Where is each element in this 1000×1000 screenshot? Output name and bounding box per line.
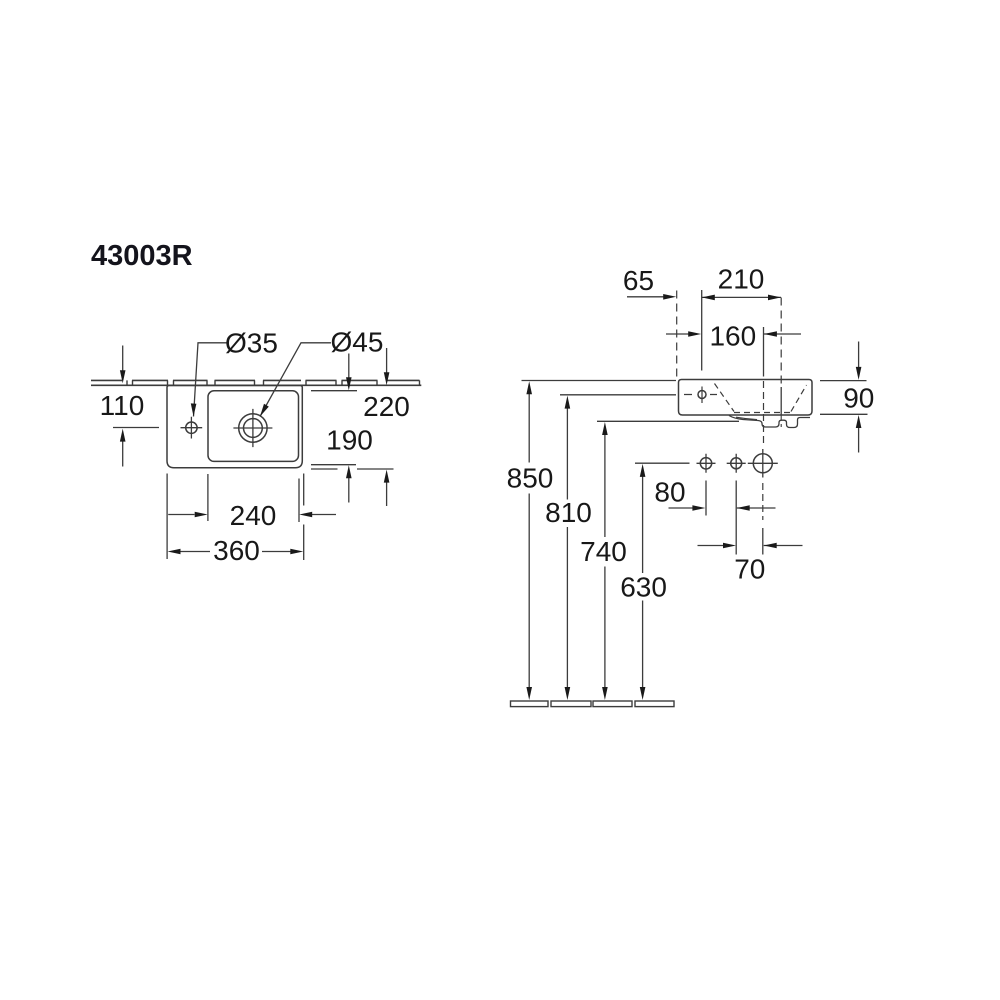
dim 70 right arrow (764, 545, 803, 547)
svg-text:360: 360 (213, 535, 260, 566)
dim 740 vertical line (604, 434, 606, 688)
bowl dashed left slant (front view) (715, 384, 735, 412)
drain inner circle (plan view) (244, 419, 263, 438)
dim 810 top reference line (560, 394, 676, 396)
dim 110 top arrow (122, 346, 124, 372)
svg-text:43003R: 43003R (91, 240, 193, 272)
wall ticks (127, 380, 420, 385)
tap hole crosshair (181, 417, 203, 439)
leader arrowhead O35 (191, 403, 197, 416)
fixing hole B (front view) (731, 458, 742, 469)
basin body rect (front view) (679, 380, 813, 416)
wall bottom line (plan view) (91, 384, 421, 386)
dim 220 up arrow (386, 483, 388, 507)
svg-text:190: 190 (326, 424, 373, 455)
dim 220 extension bottom (311, 468, 394, 470)
drain outer circle (plan view) (239, 414, 267, 442)
dim 850 vertical line (528, 394, 530, 689)
extension below hole B (735, 481, 737, 555)
svg-text:90: 90 (843, 382, 874, 413)
svg-text:110: 110 (100, 390, 145, 421)
dim 360 right arrow (290, 549, 303, 555)
overflow line (front view) (780, 387, 782, 415)
svg-text:810: 810 (545, 497, 592, 528)
drain crosshair (233, 409, 272, 447)
floor tile 4 (635, 701, 674, 707)
svg-text:220: 220 (363, 391, 410, 422)
dim 360 line (180, 551, 291, 553)
svg-text:65: 65 (623, 265, 654, 296)
dim 740 top reference line (597, 420, 739, 422)
dim 630 top reference line (635, 462, 690, 464)
fixing hole A (front view) (700, 458, 711, 469)
drain hole C (front view) (753, 454, 772, 473)
floor tile 1 (511, 701, 549, 707)
wall top line segments (plan view) (91, 379, 420, 381)
dim 210 right arrow (768, 295, 781, 301)
dim 65 arrow (627, 296, 664, 298)
svg-text:160: 160 (709, 321, 756, 352)
dim 70 left arrow (698, 545, 725, 547)
svg-text:210: 210 (718, 263, 765, 294)
dim 190 up arrow (348, 478, 350, 503)
dim 240 left arrow (168, 514, 194, 516)
dim 210 line (702, 296, 781, 298)
svg-text:70: 70 (734, 554, 765, 585)
dashed extension basin left edge (676, 291, 678, 380)
dim 160 left arrow (666, 333, 689, 335)
dim 360 extension lines (167, 474, 304, 561)
dim 110 extension line (113, 427, 159, 429)
dim 360 left arrow (168, 549, 181, 555)
dim 240 extension lines (208, 474, 299, 522)
dim 90 extension lines (820, 381, 868, 415)
drain trap inner line (736, 417, 757, 419)
extension below hole C (762, 483, 764, 520)
svg-text:850: 850 (507, 463, 554, 494)
centerline tap hole (front view) (701, 290, 703, 371)
drain centerline dashed through basin (763, 381, 765, 446)
dim 80 right arrow (737, 507, 776, 509)
dim 110 bottom arrow (122, 441, 124, 467)
dim 190 extension top (311, 390, 357, 392)
dim 630 vertical line (642, 476, 644, 688)
dim 210 left arrow (702, 295, 715, 301)
dim 850 top reference line (522, 380, 677, 382)
dim 90 up arrow (858, 428, 860, 453)
dim 160 right arrow (764, 333, 801, 335)
svg-text:Ø35: Ø35 (225, 327, 278, 358)
svg-text:630: 630 (620, 572, 667, 603)
tap hole mark (front view) (698, 391, 706, 399)
dim 810 vertical line (566, 408, 568, 689)
svg-text:Ø45: Ø45 (331, 327, 384, 358)
drain trap outline (front view) (729, 416, 810, 428)
bowl dashed right slant (front view) (791, 385, 807, 412)
basin outer rect (plan view) (167, 386, 302, 468)
dim 90 down arrow (858, 342, 860, 368)
leader arrowhead O45 (260, 404, 269, 417)
drain centerline upper (front view) (763, 327, 765, 377)
dim 220 down arrow (386, 348, 388, 373)
dim 80 left arrow (669, 507, 694, 509)
dim 190 extension bottom (311, 464, 356, 466)
leader line O45 (260, 343, 331, 417)
floor tile 3 (593, 701, 632, 707)
dashed extension 210 right (780, 298, 782, 387)
svg-text:80: 80 (654, 477, 685, 508)
tap hole circle (plan view) (186, 422, 197, 433)
dim 190 down arrow (348, 354, 350, 379)
basin inner bowl rect (plan view) (208, 391, 299, 462)
floor tile 2 (551, 701, 591, 707)
bowl dashed bottom (front view) (734, 412, 791, 414)
svg-text:240: 240 (230, 500, 277, 531)
extension below hole A (705, 481, 707, 516)
dim 240 right arrow (312, 514, 336, 516)
leader line O35 (194, 343, 227, 417)
svg-text:740: 740 (580, 536, 627, 567)
